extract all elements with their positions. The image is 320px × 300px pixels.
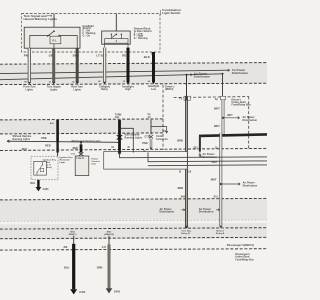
svg-text:E01: E01 (214, 196, 219, 198)
harness band 1 (0, 63, 267, 85)
junction trunk/y141 (119, 141, 121, 143)
boundary dashed line D8 (0, 237, 267, 238)
key switch contacts (37, 162, 43, 175)
boundary dashed line D1 (0, 63, 267, 65)
svg-text:WHT: WHT (214, 107, 220, 110)
svg-text:WHT: WHT (214, 125, 220, 128)
ground G403 (106, 288, 113, 293)
harness band 2 (0, 119, 164, 134)
ground G402 (70, 289, 77, 294)
bus bar left drop wire (199, 136, 201, 152)
PGM-FI main relay box (75, 156, 89, 176)
svg-text:BRN: BRN (177, 140, 183, 143)
boundary dashed line D4 (0, 133, 163, 134)
ground wire 1 BLK (72, 244, 75, 289)
harness band 3 (0, 198, 267, 221)
connector box at fuse box entry (220, 96, 225, 99)
BRN wire end arrow at D7 (185, 226, 188, 229)
boundary dashed line D7 (0, 228, 267, 229)
svg-text:Lights: Lights (50, 88, 58, 91)
ground G401 (36, 187, 42, 191)
svg-text:C74: C74 (71, 153, 76, 156)
WHT destination label (216, 230, 225, 235)
boundary dashed line D9 (0, 249, 267, 250)
PGM box right label (92, 158, 100, 165)
wire from box top into switch S2 (115, 14, 117, 35)
svg-text:G403: G403 (114, 291, 121, 294)
boundary dashed line D2 (0, 83, 267, 84)
switch S1 right rail (59, 35, 77, 48)
horizontal wire B (0, 74, 222, 80)
PNK key-switch wire through band 2 (56, 120, 59, 142)
destination labels under D2 (23, 85, 159, 91)
air power distribution ref left of BRN wire (160, 208, 175, 214)
svg-text:G : On: G : On (83, 34, 91, 37)
svg-text:Lights: Lights (26, 88, 34, 91)
WHT wire continuing through bar down (219, 133, 222, 199)
BRN destination label (181, 231, 191, 236)
svg-text:Running Lights: Running Lights (125, 136, 143, 139)
turn signal / hazard relay box (104, 152, 188, 170)
svg-text:Connector: Connector (156, 138, 168, 141)
svg-text:Light Switch: Light Switch (162, 11, 181, 15)
trunk into relay (118, 150, 121, 152)
RED branch wire to PGM-FI relay (80, 142, 82, 144)
SMJ label wire 1 (69, 232, 77, 237)
wire W6 BLK (152, 52, 155, 84)
SMJ tick wire 1 (73, 236, 75, 244)
main feed wire through fuse box (BRN trunk right) (185, 96, 188, 228)
svg-text:Relay A: Relay A (216, 232, 225, 235)
relay internal wire 2 (148, 152, 267, 161)
svg-text:WHT: WHT (227, 115, 233, 117)
svg-text:Fuse/Relay Box: Fuse/Relay Box (235, 258, 254, 261)
horizontal distribution wire y141 (7, 141, 120, 142)
driver's box label left (165, 86, 175, 92)
ignition key switch label (43, 159, 57, 170)
combination light switch label (162, 8, 181, 15)
svg-text:G402: G402 (79, 291, 86, 294)
svg-text:G401: G401 (43, 188, 50, 191)
in-band connector tick labels (24, 80, 151, 83)
wire down to under-dash fuse box (186, 75, 188, 97)
arrow ref for left drop (199, 152, 201, 156)
svg-text:PGM-FI: PGM-FI (76, 158, 84, 160)
wire W2 GRN (52, 48, 55, 84)
svg-text:G : Passing: G : Passing (134, 37, 148, 40)
headlight switch label block (83, 25, 96, 38)
svg-text:Relay: Relay (101, 88, 108, 91)
svg-text:Clock: Clock (156, 136, 163, 138)
key symbol (40, 168, 43, 171)
branch arrow to power distribution at 118 (222, 117, 224, 119)
svg-text:Distribution: Distribution (160, 211, 175, 214)
svg-text:RED: RED (45, 144, 51, 147)
branch daytime label (125, 134, 143, 140)
svg-text:PNK: PNK (142, 142, 148, 145)
svg-text:With Daytime: With Daytime (125, 134, 141, 137)
svg-text:BLK: BLK (30, 182, 35, 185)
svg-text:Distribution: Distribution (232, 71, 249, 75)
svg-text:(BRKT): (BRKT) (69, 234, 77, 236)
svg-text:BLK: BLK (144, 55, 151, 59)
svg-text:A08: A08 (181, 196, 186, 199)
label arrow (47, 15, 52, 17)
junction node at fuse column (222, 73, 224, 75)
switch S1 arm (47, 31, 54, 36)
harness band 4 (0, 223, 267, 240)
turn signal switch box S1 (24, 27, 80, 48)
svg-text:BRN: BRN (178, 187, 184, 190)
svg-text:Relay B: Relay B (181, 233, 190, 235)
svg-text:Distribution: Distribution (243, 184, 258, 187)
terminal numbers under switches (28, 48, 154, 55)
trunk wire (fused feed) through band 2 (118, 120, 121, 150)
svg-text:Distribution: Distribution (243, 119, 258, 122)
wire W1 PNK (28, 48, 31, 84)
clock branch right stub (151, 127, 168, 133)
branch arrow on WHT at 184 (220, 183, 222, 185)
svg-text:Fuse/Relay Box: Fuse/Relay Box (232, 104, 252, 107)
bowtie connector on trunk (117, 135, 123, 139)
ground wire from key switch (37, 180, 39, 187)
wire W5 RED (126, 48, 129, 85)
svg-text:Running Lights: Running Lights (13, 138, 31, 141)
SMJ tick wire 2 (108, 236, 110, 245)
bus bar in fuse box (199, 134, 267, 136)
ground wire 2 GRN (108, 244, 111, 288)
SMJ label wire 2 (104, 232, 114, 237)
svg-text:Lights: Lights (73, 88, 81, 91)
svg-text:E15: E15 (194, 148, 199, 150)
arrow at feed wire end (228, 69, 230, 71)
svg-text:Unit: Unit (92, 162, 97, 165)
WHT wire end arrow at D7 (219, 226, 222, 229)
wire W4 LT BLU (103, 48, 106, 85)
left arrow of wire y141 (7, 140, 10, 142)
wire color labels row (24, 53, 151, 59)
daytime label left (13, 135, 33, 141)
WHT wire lower part (219, 199, 222, 226)
fuse down branch (222, 74, 224, 99)
svg-text:R L: R L (53, 39, 58, 43)
driver's under-dash fuse/relay box (dashed) (163, 85, 249, 150)
PNK key-switch wire lower (56, 142, 58, 153)
relay internal wire 3 (148, 164, 267, 167)
svg-text:GRN: GRN (97, 267, 103, 270)
wire W3 BRN (76, 48, 79, 84)
reminder light label (60, 156, 74, 164)
svg-text:RED: RED (22, 149, 27, 151)
turn signal / hazard switch label (24, 14, 58, 21)
svg-text:Without Daytime: Without Daytime (13, 135, 33, 138)
driver's box label right (232, 98, 252, 106)
bowtie connector on clock wire (149, 135, 153, 139)
PNK wire to D5 (150, 139, 153, 150)
switch S1 left rail (30, 35, 49, 48)
svg-text:Distribution: Distribution (194, 75, 211, 79)
svg-text:Low: Low (151, 88, 156, 91)
svg-text:Fp: Fp (215, 98, 219, 101)
trunk branch right (120, 128, 134, 150)
svg-text:Hazard Warning Lights: Hazard Warning Lights (24, 17, 58, 21)
fuse output WHT wire (222, 100, 225, 136)
svg-text:(MICU): (MICU) (165, 88, 173, 91)
flow arrow on feed wire (190, 74, 192, 76)
svg-text:M: M (128, 147, 130, 149)
switch S2 inner bar (105, 39, 128, 44)
combination light switch dashed box (22, 14, 161, 53)
clock branch wire (150, 120, 152, 135)
switch S2 contacts (111, 34, 112, 35)
svg-text:WHT: WHT (211, 179, 217, 182)
svg-text:High: High (125, 88, 131, 91)
wire from box top into switch S1 (53, 14, 55, 32)
junction node to fuse box entry (186, 74, 188, 76)
boundary dashed line D3 (0, 119, 164, 120)
svg-text:TURN: TURN (115, 114, 122, 116)
switch S1 inner contact box (50, 36, 61, 44)
dimmer/passing switch label block (134, 28, 152, 41)
boundary dashed line D6 (0, 198, 267, 200)
svg-text:BLK: BLK (64, 267, 69, 270)
switch S2 terminal drops (105, 34, 128, 47)
passenger's box label (235, 253, 254, 261)
horizontal wire A (0, 70, 230, 73)
svg-text:Distribution: Distribution (199, 211, 214, 214)
svg-text:10A: 10A (115, 116, 120, 119)
svg-text:J08: J08 (63, 247, 68, 249)
trunk label above D3 (115, 114, 122, 119)
boundary dashed line D5 (0, 148, 267, 150)
svg-text:PNK: PNK (41, 137, 47, 140)
connector block FB on box edge (184, 96, 191, 100)
dimmer switch box S2 (102, 31, 131, 44)
ignition key switch dashed box (31, 156, 58, 180)
svg-text:Light: Light (60, 161, 66, 164)
svg-text:A17: A17 (102, 246, 107, 249)
label bracket (160, 10, 162, 15)
branch into relay (132, 150, 134, 152)
svg-text:C725: C725 (144, 136, 150, 138)
clock branch label above D3 (148, 114, 152, 119)
svg-text:Passenger's(MICU): Passenger's(MICU) (227, 243, 254, 247)
relay internal wire 1 (120, 153, 268, 158)
clock connector label (144, 136, 167, 141)
ignition key switch inner box (34, 161, 47, 175)
faint band edge dotted line (0, 220, 267, 221)
svg-text:RED: RED (73, 147, 79, 150)
air power distribution ref left of WHT wire (199, 208, 214, 214)
